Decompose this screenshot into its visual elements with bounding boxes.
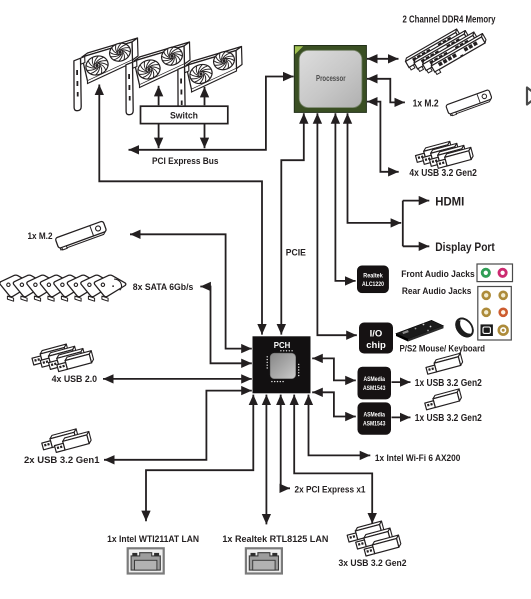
M.2 module (left)	[55, 221, 108, 251]
wire PCH to Intel Wi-Fi	[309, 395, 371, 456]
8x SATA drives	[0, 275, 126, 301]
4x USB 2.0 connectors	[31, 344, 95, 372]
svg-text:1x Intel Wi-Fi 6 AX200: 1x Intel Wi-Fi 6 AX200	[375, 453, 461, 464]
graphics card 1	[74, 38, 138, 111]
graphics card 2	[126, 42, 190, 115]
svg-text:ALC1220: ALC1220	[362, 282, 385, 288]
wire PCH to ASMedia 1	[312, 358, 356, 380]
3x USB 3.2 Gen2 connectors	[346, 521, 402, 556]
mouse icon	[453, 315, 477, 340]
wire PCH to 3x USB 3.2 Gen2	[294, 395, 372, 524]
wire PCH to 8x SATA	[200, 287, 252, 364]
PCH chipset	[253, 336, 311, 393]
M.2 module (upper right)	[446, 89, 493, 116]
svg-text:8x SATA 6Gb/s: 8x SATA 6Gb/s	[133, 282, 194, 293]
ASMedia ASM1543 chip 2	[358, 402, 392, 434]
wire processor to DDR4 memory	[367, 58, 399, 60]
svg-text:PCH: PCH	[274, 341, 291, 350]
svg-text:Display Port: Display Port	[435, 242, 495, 254]
svg-text:1x USB 3.2 Gen2: 1x USB 3.2 Gen2	[415, 413, 482, 424]
svg-text:ASMedia: ASMedia	[363, 377, 385, 383]
svg-text:ASM1543: ASM1543	[363, 386, 386, 392]
ASMedia ASM1543 chip 1	[358, 367, 392, 400]
svg-text:Switch: Switch	[170, 111, 198, 122]
wire switch down to bus (left)	[158, 124, 160, 149]
wire fork to HDMI	[403, 200, 430, 202]
wire PCH to ASMedia 2	[312, 392, 356, 416]
svg-text:PCI Express Bus: PCI Express Bus	[152, 156, 219, 167]
wire ASMedia 2 to 1x USB 3.2 Gen2	[392, 416, 411, 418]
wire PCIE link processor to PCH	[281, 113, 304, 334]
USB connector (ASMedia 1)	[425, 353, 464, 374]
svg-text:I/O: I/O	[370, 328, 383, 339]
svg-text:4x USB 3.2 Gen2: 4x USB 3.2 Gen2	[409, 168, 477, 179]
switch box	[141, 106, 228, 123]
wire PCI bus to GPU1 and down to PCH top	[99, 85, 262, 335]
wire PCH to 1x M.2 (left)	[130, 234, 252, 348]
svg-text:Processor: Processor	[316, 74, 346, 83]
wire PCH to Realtek LAN	[265, 395, 267, 525]
svg-text:1x M.2: 1x M.2	[413, 98, 439, 109]
svg-text:1x M.2: 1x M.2	[28, 231, 53, 242]
wire display fork vertical	[402, 201, 404, 247]
wire PCH to 2x USB 3.2 Gen1	[104, 391, 252, 460]
wire switch up to GPU3	[204, 87, 206, 106]
svg-text:ASMedia: ASMedia	[363, 413, 385, 419]
rear audio jacks panel	[478, 287, 512, 341]
2x USB 3.2 Gen1 connectors	[41, 429, 92, 453]
svg-text:3x USB 3.2 Gen2: 3x USB 3.2 Gen2	[339, 558, 407, 569]
wire processor to I/O chip	[317, 113, 356, 335]
svg-text:ASM1543: ASM1543	[363, 421, 386, 427]
svg-text:1x Intel WTI211AT LAN: 1x Intel WTI211AT LAN	[107, 534, 199, 545]
processor U1	[294, 46, 366, 113]
svg-text:2 Channel DDR4 Memory: 2 Channel DDR4 Memory	[403, 15, 496, 26]
wire PCH to Intel LAN	[146, 395, 253, 522]
wire processor to Realtek ALC1220	[335, 113, 355, 281]
wire processor to 4x USB 3.2 Gen2	[367, 102, 399, 172]
svg-text:2x PCI Express x1: 2x PCI Express x1	[295, 484, 367, 495]
cursor triangle (right edge)	[527, 88, 531, 105]
DDR4 memory modules	[404, 29, 489, 75]
graphics card 3	[178, 47, 242, 120]
svg-text:Realtek: Realtek	[363, 273, 383, 279]
svg-text:Front Audio Jacks: Front Audio Jacks	[401, 269, 475, 280]
Realtek LAN port	[246, 548, 282, 573]
I/O chip	[359, 323, 393, 354]
Intel LAN port	[128, 548, 164, 573]
svg-text:PCIE: PCIE	[286, 247, 306, 258]
svg-text:P/S2 Mouse/ Keyboard: P/S2 Mouse/ Keyboard	[400, 343, 486, 354]
svg-text:1x Realtek RTL8125 LAN: 1x Realtek RTL8125 LAN	[222, 534, 328, 545]
svg-text:Rear Audio Jacks: Rear Audio Jacks	[402, 286, 472, 297]
Realtek ALC1220 chip	[357, 266, 388, 293]
wire processor to 1x M.2 (right)	[367, 79, 405, 103]
USB connector (ASMedia 2)	[424, 389, 463, 410]
svg-text:HDMI: HDMI	[435, 196, 464, 208]
wire PCH to 2x PCI Express x1	[281, 395, 290, 489]
wire PCH to 4x USB 2.0	[103, 378, 252, 380]
wire switch down to bus (right)	[204, 124, 206, 149]
wire switch up to GPU2	[158, 86, 160, 106]
wire PCI Express Bus line to processor	[129, 77, 294, 150]
svg-text:1x USB 3.2 Gen2: 1x USB 3.2 Gen2	[415, 378, 482, 389]
svg-text:chip: chip	[366, 340, 386, 351]
4x USB connectors (right)	[414, 141, 474, 168]
wire ASMedia 1 to 1x USB 3.2 Gen2	[392, 381, 411, 383]
wire fork to Display Port	[403, 245, 430, 247]
svg-text:2x USB 3.2 Gen1: 2x USB 3.2 Gen1	[24, 455, 100, 466]
keyboard icon	[396, 320, 444, 341]
front audio jacks panel	[477, 264, 513, 282]
wire processor to display fork	[348, 113, 402, 223]
svg-text:4x USB 2.0: 4x USB 2.0	[52, 374, 98, 385]
